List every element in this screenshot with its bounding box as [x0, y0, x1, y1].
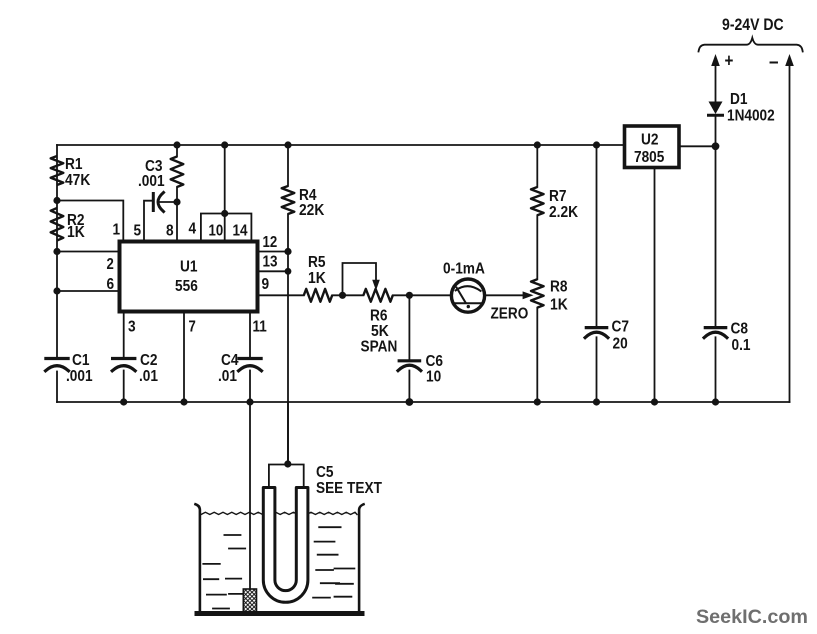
node bottom rail pin7 — [180, 398, 187, 405]
tank bottom — [197, 611, 362, 616]
svg-text:C4: C4 — [221, 352, 239, 369]
capacitor C3 .001 — [153, 193, 163, 212]
svg-text:SeekIC.com: SeekIC.com — [696, 607, 808, 628]
svg-text:C5: C5 — [316, 464, 334, 481]
node bottom rail C6 — [406, 398, 414, 406]
svg-text:C8: C8 — [731, 321, 749, 338]
wire R6 wiper bracket — [343, 263, 377, 295]
wire C8 line lower — [715, 337, 717, 402]
wire top rail right segment (U2 to D1 node) — [679, 145, 716, 147]
wire pin 5 — [144, 201, 152, 242]
regulator U2 7805 box — [625, 126, 680, 168]
svg-text:7: 7 — [189, 319, 196, 336]
capacitor C8 0.1 — [704, 328, 727, 338]
tank left wall — [196, 504, 200, 612]
node top rail at C7 — [593, 141, 600, 148]
node pin6 junction — [53, 287, 60, 294]
wire C7 line lower — [596, 337, 598, 402]
svg-text:3: 3 — [128, 319, 136, 336]
op-amp U1 556 timer box — [120, 242, 258, 312]
wire pin 12 stub — [258, 251, 289, 253]
wire pin 3 lower — [123, 371, 125, 403]
node C6 top — [406, 292, 413, 299]
wire bottom rail — [57, 401, 790, 403]
node bottom rail C8 — [712, 398, 719, 405]
svg-text:14: 14 — [233, 223, 248, 240]
capacitor C6 10 — [398, 361, 421, 371]
svg-text:556: 556 — [175, 278, 198, 295]
svg-text:12: 12 — [263, 234, 278, 251]
svg-text:11: 11 — [253, 319, 268, 336]
diode D1 1N4002 triangle — [709, 102, 723, 115]
svg-text:0-1mA: 0-1mA — [443, 261, 485, 278]
wire R6 to meter node — [393, 294, 451, 296]
svg-text:5K: 5K — [371, 323, 389, 340]
wire left rail lower — [56, 372, 58, 403]
node D1/U2 output junction — [712, 142, 720, 150]
wire pin 10 from top rail — [224, 145, 226, 242]
capacitor C2 .01 — [112, 359, 135, 371]
wire pin 11 lower — [249, 371, 251, 403]
svg-text:1K: 1K — [550, 297, 568, 314]
node bottom rail pin3 — [120, 398, 127, 405]
svg-text:1K: 1K — [308, 270, 326, 287]
wire C3 to node A — [160, 201, 177, 203]
svg-text:R1: R1 — [65, 156, 83, 173]
svg-text:5: 5 — [134, 223, 142, 240]
svg-text:6: 6 — [107, 276, 115, 293]
resistor R1 47K — [51, 156, 64, 185]
svg-text:0.1: 0.1 — [732, 337, 751, 354]
node top rail at pin10 line — [221, 141, 228, 148]
svg-text:.001: .001 — [66, 368, 93, 385]
resistor R4 22K — [282, 186, 295, 214]
diode D1 cathode bar — [709, 114, 723, 117]
wire pin 2 stub — [57, 251, 120, 253]
meter pivot dot — [467, 305, 470, 308]
brace 9-24V DC — [699, 38, 803, 52]
capacitor C7 20 — [585, 328, 608, 338]
wire pin 11 upper — [249, 312, 251, 357]
potentiometer R8 1K — [531, 279, 544, 307]
water dashes left — [203, 535, 245, 609]
electrode block — [243, 589, 256, 613]
wire pin 3 upper — [123, 312, 125, 357]
svg-text:9-24V DC: 9-24V DC — [722, 16, 784, 34]
node pin 12 — [284, 248, 291, 255]
- input arrowhead — [785, 54, 794, 66]
R8 wiper arrowhead — [523, 291, 534, 299]
node bottom rail pin11/electrode — [246, 398, 253, 405]
wire pin 6 stub — [57, 290, 120, 292]
wire left rail upper — [56, 145, 58, 357]
wire R3 top to rail — [176, 145, 178, 157]
wire C5 line — [287, 402, 289, 464]
wire C6 line upper — [408, 295, 410, 359]
node bracket at pin10 — [221, 210, 228, 217]
wire R4 line (top rail to C5 bracket) — [287, 145, 289, 464]
svg-text:1N4002: 1N4002 — [727, 108, 775, 125]
svg-text:2.2K: 2.2K — [549, 204, 578, 221]
wire minus line — [789, 63, 791, 402]
svg-text:47K: 47K — [65, 172, 91, 189]
wire pin 7 — [183, 312, 185, 403]
tank right wall — [359, 504, 363, 612]
capacitor C5 U-tube (white fill over water line) — [263, 488, 308, 603]
node A (C3/R3/pin8) — [173, 198, 180, 205]
wire meter to R8 wiper — [485, 294, 524, 296]
svg-text:1: 1 — [113, 222, 121, 239]
wire C5 bracket — [269, 465, 304, 488]
resistor R2 1K — [51, 208, 64, 241]
svg-text:8: 8 — [166, 223, 174, 240]
svg-text:9: 9 — [262, 276, 270, 293]
node top rail at R7 — [534, 141, 541, 148]
capacitor C1 .001 — [46, 359, 69, 371]
wire R5 to R6 — [332, 294, 363, 296]
capacitor C4 .01 — [239, 359, 262, 371]
potentiometer R6 5K — [363, 289, 392, 302]
wire C7 line upper — [596, 145, 598, 326]
water surface wavy line — [201, 512, 357, 514]
svg-text:10: 10 — [209, 223, 224, 240]
meter scale arc — [456, 286, 481, 291]
node top rail at R3 — [173, 141, 180, 148]
node R2/pin2 junction — [53, 248, 60, 255]
wire top rail left segment — [57, 144, 625, 146]
svg-text:D1: D1 — [730, 91, 748, 108]
node R5/R6 wiper junction — [339, 292, 346, 299]
svg-text:1K: 1K — [67, 224, 85, 241]
svg-text:C1: C1 — [72, 352, 90, 369]
svg-text:–: – — [769, 51, 779, 73]
node R1/R2 junction — [53, 197, 60, 204]
svg-text:2: 2 — [107, 256, 114, 273]
wire pin 1 path — [57, 201, 123, 242]
node pin 13 — [285, 268, 292, 275]
meter M1 0-1mA body — [451, 279, 484, 312]
svg-text:20: 20 — [613, 336, 628, 353]
svg-text:+: + — [725, 51, 734, 71]
svg-text:C6: C6 — [426, 353, 444, 370]
wire D1 line (arrow shaft to C8) — [715, 63, 717, 326]
svg-text:C2: C2 — [140, 352, 158, 369]
svg-text:U1: U1 — [180, 259, 198, 276]
resistor R7 2.2K — [531, 187, 544, 215]
svg-text:U2: U2 — [641, 132, 659, 149]
svg-text:.01: .01 — [218, 368, 237, 385]
wire C6 line lower — [408, 371, 410, 403]
wire bracket pins 4-10-14 — [201, 214, 252, 242]
wire R7/R8 line segments — [536, 145, 538, 402]
svg-text:SEE TEXT: SEE TEXT — [316, 480, 382, 497]
meter lower chord — [453, 302, 484, 304]
svg-text:7805: 7805 — [634, 149, 664, 166]
svg-text:C7: C7 — [612, 319, 630, 336]
wire pin 9 to R5 — [258, 294, 304, 296]
svg-text:10: 10 — [426, 369, 441, 386]
resistor R3 (unlabeled, above pin 8) — [171, 157, 184, 188]
node bottom rail R8 — [534, 398, 541, 405]
+ input arrowhead — [711, 54, 720, 66]
svg-text:SPAN: SPAN — [361, 339, 398, 356]
resistor R5 1K — [304, 289, 332, 302]
wire R3 to node A to pin 8 — [176, 187, 178, 242]
svg-text:4: 4 — [189, 221, 197, 238]
svg-text:22K: 22K — [299, 202, 325, 219]
svg-text:R6: R6 — [370, 308, 388, 325]
node top rail at R4 — [284, 141, 291, 148]
node bottom rail U2 gnd — [651, 398, 658, 405]
water dashes right — [313, 527, 354, 597]
node C5 bracket — [284, 460, 291, 467]
svg-text:ZERO: ZERO — [491, 306, 529, 323]
svg-text:R5: R5 — [308, 254, 326, 271]
wire U2 ground line — [654, 168, 656, 403]
wire pin 13 stub — [258, 270, 289, 272]
svg-text:.001: .001 — [138, 173, 165, 190]
svg-text:R7: R7 — [549, 188, 567, 205]
meter needle — [457, 288, 466, 303]
wire electrode line — [249, 402, 251, 589]
node bottom rail C7 — [593, 398, 600, 405]
svg-text:13: 13 — [263, 254, 278, 271]
svg-text:.01: .01 — [139, 368, 158, 385]
R6 wiper arrowhead — [372, 280, 380, 291]
svg-text:R8: R8 — [550, 279, 568, 296]
